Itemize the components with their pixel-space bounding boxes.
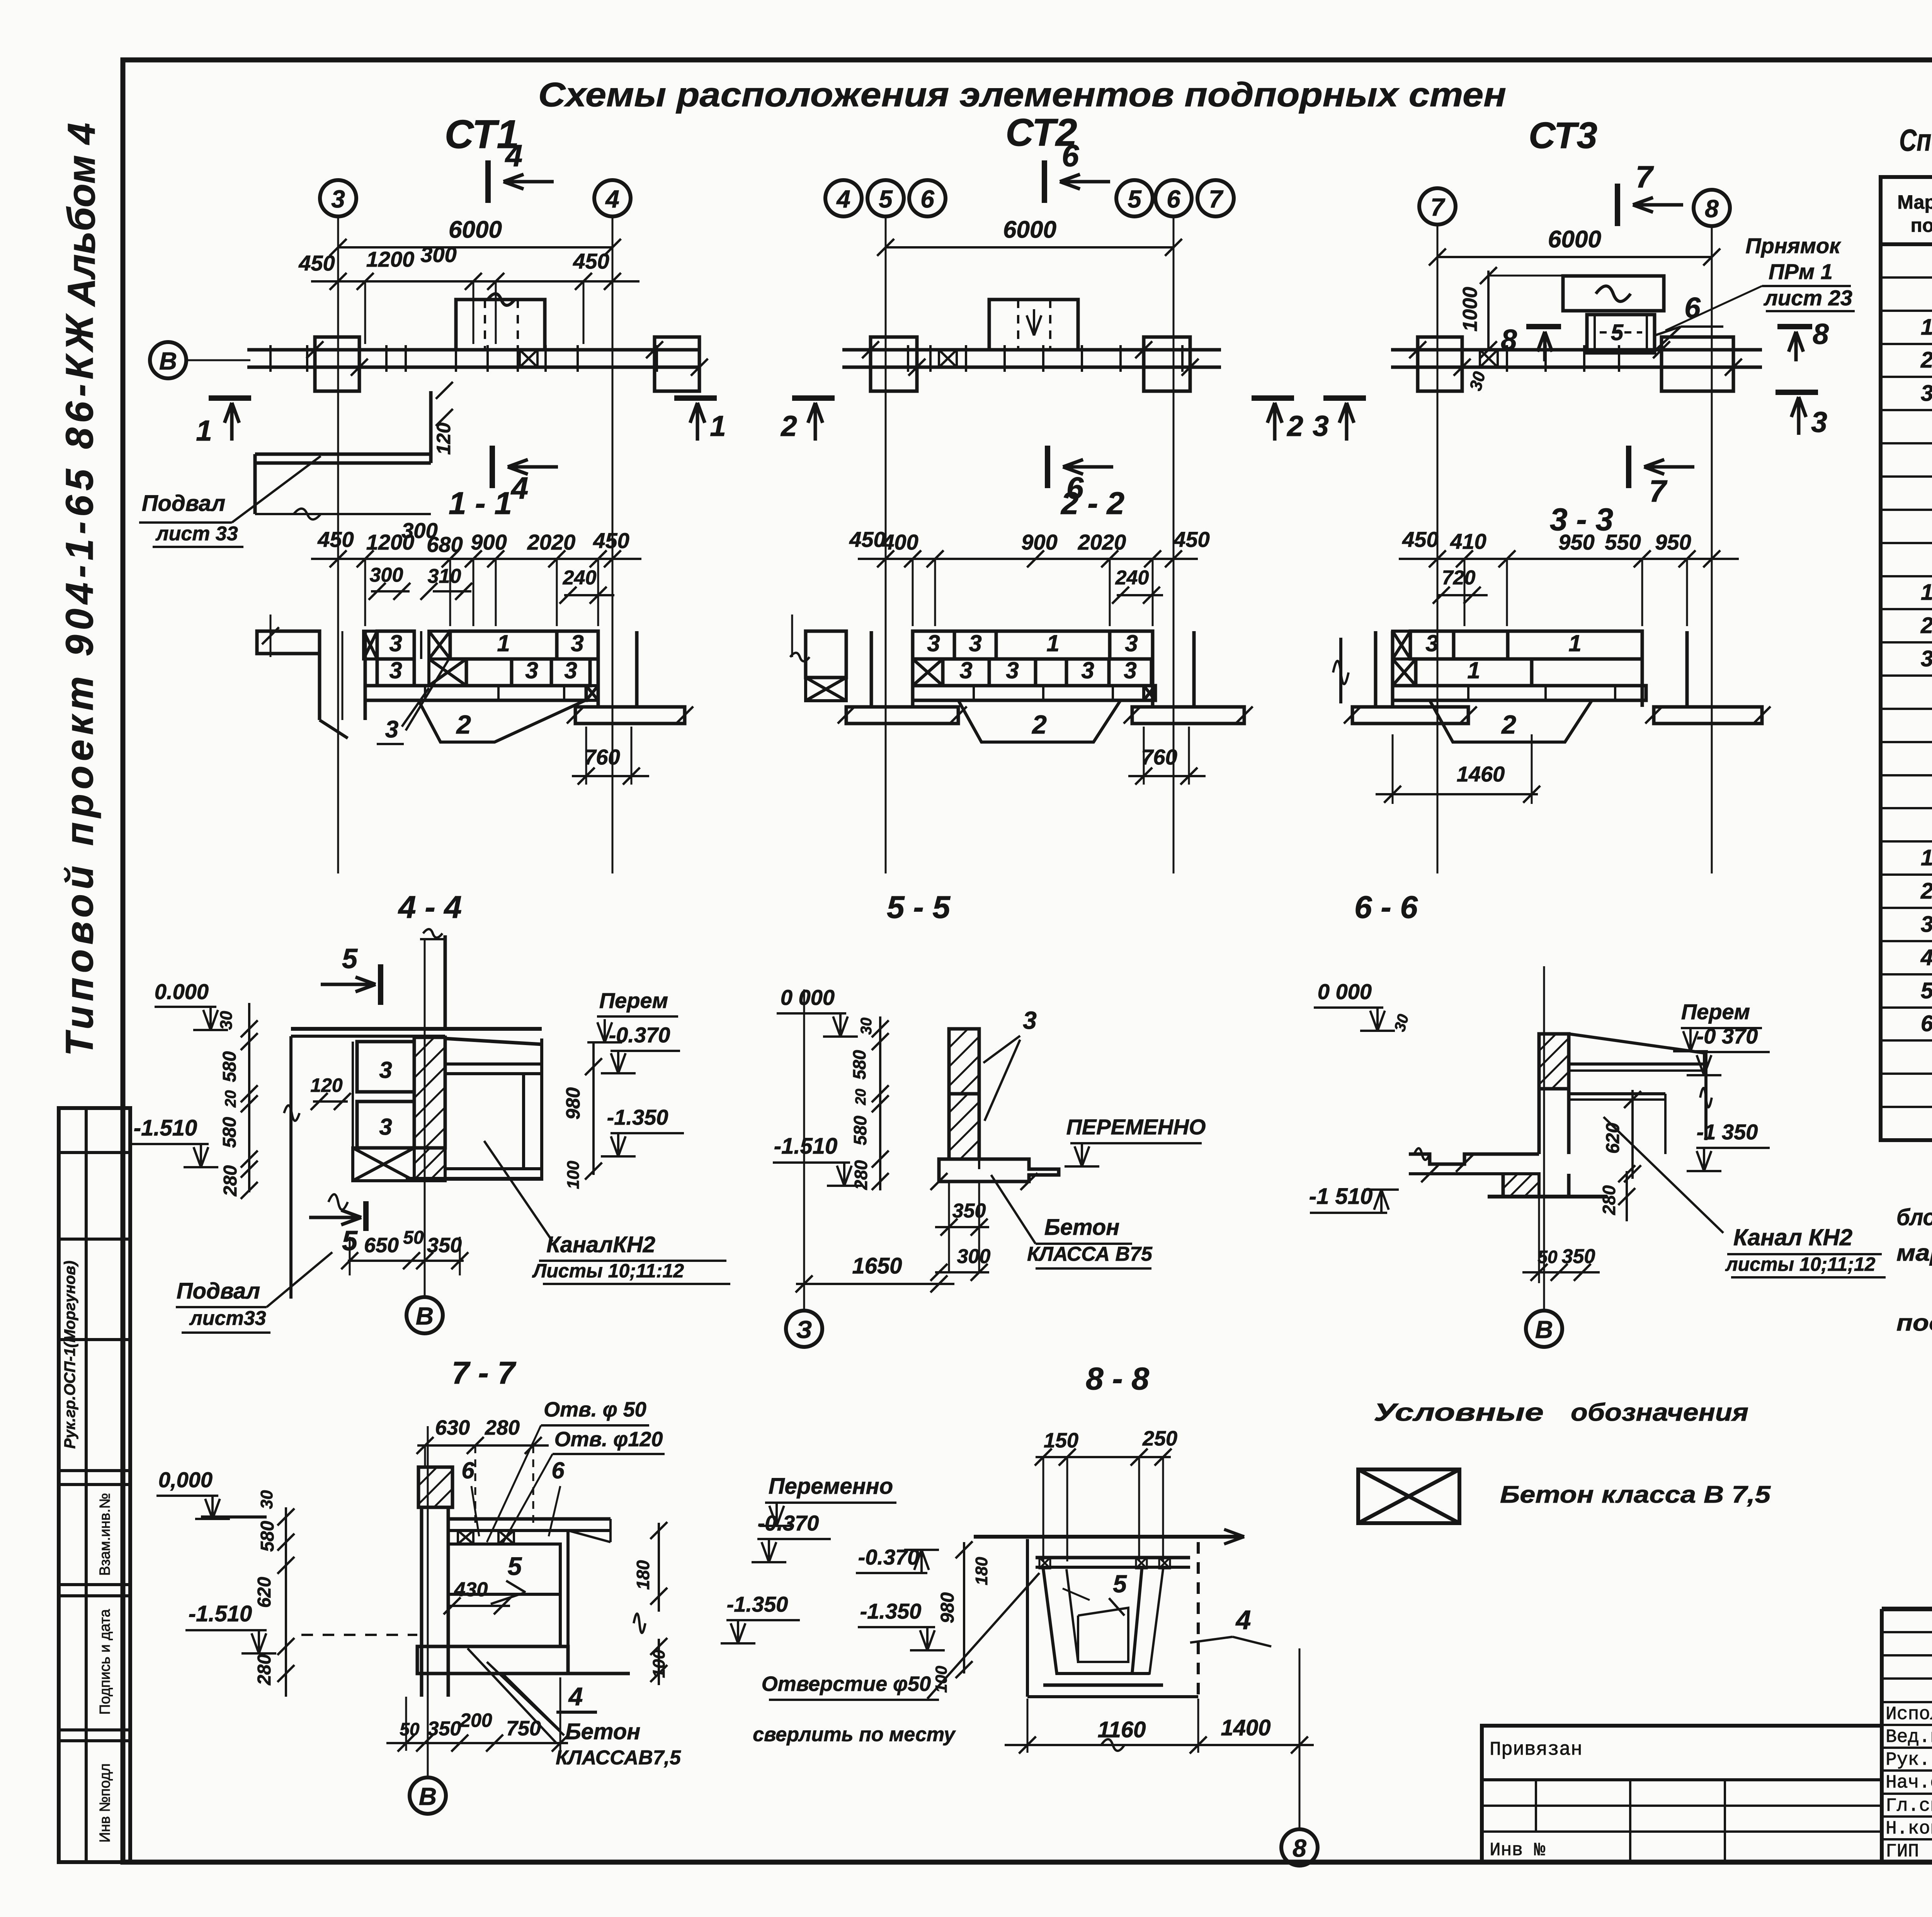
svg-text:Отв. φ 50: Отв. φ 50 (544, 1398, 646, 1421)
svg-text:580: 580 (257, 1521, 278, 1552)
svg-text:2: 2 (1501, 710, 1516, 739)
svg-text:450: 450 (849, 527, 885, 552)
svg-text:300: 300 (957, 1245, 991, 1268)
svg-text:лист33: лист33 (189, 1307, 266, 1330)
svg-text:Рук.гр.ОСП-1(Моргунов): Рук.гр.ОСП-1(Моргунов) (61, 1261, 78, 1449)
svg-text:50: 50 (400, 1719, 420, 1739)
svg-text:980: 980 (937, 1592, 958, 1623)
svg-text:5: 5 (1921, 978, 1932, 1003)
svg-text:1: 1 (196, 414, 212, 447)
svg-text:Испол.: Испол. (1886, 1704, 1932, 1725)
svg-text:580: 580 (219, 1117, 240, 1148)
svg-text:8 - 8: 8 - 8 (1086, 1361, 1149, 1396)
svg-text:Инв №: Инв № (1490, 1840, 1545, 1861)
svg-text:6: 6 (551, 1457, 565, 1483)
svg-text:2: 2 (1031, 710, 1047, 739)
svg-text:760: 760 (584, 745, 620, 769)
svg-text:3: 3 (389, 630, 402, 656)
svg-text:350: 350 (427, 1234, 462, 1257)
svg-text:950: 950 (1558, 530, 1594, 554)
svg-text:В: В (416, 1302, 434, 1330)
svg-text:5: 5 (508, 1552, 522, 1580)
svg-text:180: 180 (633, 1560, 653, 1590)
svg-text:100: 100 (564, 1161, 583, 1189)
svg-text:4 - 4: 4 - 4 (398, 890, 462, 925)
svg-text:0,000: 0,000 (158, 1468, 213, 1492)
svg-text:2 - 2: 2 - 2 (1060, 486, 1124, 521)
svg-text:3: 3 (1081, 657, 1094, 683)
svg-text:950: 950 (1655, 530, 1691, 554)
svg-text:240: 240 (563, 567, 597, 589)
svg-text:4: 4 (605, 185, 619, 213)
svg-text:КаналКН2: КаналКН2 (546, 1232, 655, 1257)
svg-text:3: 3 (1811, 406, 1827, 438)
svg-text:Бетон класса В 7,5: Бетон класса В 7,5 (1500, 1481, 1771, 1508)
svg-text:8: 8 (1293, 1834, 1306, 1862)
svg-text:6000: 6000 (1548, 226, 1601, 253)
svg-text:3: 3 (1125, 630, 1138, 656)
svg-text:0 000: 0 000 (781, 985, 835, 1010)
svg-text:Перем: Перем (1681, 999, 1750, 1024)
svg-text:обозначения: обозначения (1571, 1398, 1748, 1426)
svg-text:630: 630 (435, 1416, 470, 1439)
svg-text:Переменно: Переменно (769, 1474, 893, 1499)
svg-text:6: 6 (1684, 291, 1701, 324)
svg-text:Н.контр: Н.контр (1886, 1818, 1932, 1839)
svg-text:980: 980 (562, 1087, 584, 1120)
svg-text:250: 250 (1142, 1427, 1177, 1450)
svg-text:3: 3 (1921, 646, 1932, 671)
svg-text:Типовой проект 904-1-65 86-К: Типовой проект 904-1-65 86-КЖ (58, 310, 101, 1056)
svg-text:900: 900 (1021, 530, 1057, 554)
svg-text:410: 410 (1450, 529, 1486, 553)
svg-text:Марка: Марка (1897, 191, 1932, 213)
svg-text:1160: 1160 (1098, 1717, 1146, 1742)
svg-text:3: 3 (1921, 381, 1932, 406)
svg-text:Бетон: Бетон (1044, 1215, 1120, 1240)
svg-text:30: 30 (217, 1011, 236, 1030)
svg-text:Нач.отд: Нач.отд (1886, 1772, 1932, 1793)
svg-text:1: 1 (497, 630, 510, 656)
svg-text:подсыпка толщиной 100 мм.: подсыпка толщиной 100 мм. (1896, 1310, 1932, 1336)
svg-text:-1.510: -1.510 (189, 1601, 252, 1626)
svg-text:310: 310 (428, 565, 461, 587)
svg-text:1 - 1: 1 - 1 (449, 486, 512, 521)
svg-text:КЛАССАВ7,5: КЛАССАВ7,5 (556, 1747, 681, 1769)
svg-text:В: В (1535, 1316, 1553, 1343)
svg-text:3: 3 (564, 657, 577, 683)
svg-text:450: 450 (298, 251, 335, 275)
svg-text:1000: 1000 (1459, 287, 1481, 332)
svg-text:З: З (796, 1316, 812, 1343)
svg-text:0 000: 0 000 (1318, 979, 1372, 1004)
svg-text:Условные: Условные (1374, 1398, 1544, 1426)
svg-text:6: 6 (1921, 1011, 1932, 1036)
svg-text:Подпись и дата: Подпись и дата (97, 1609, 113, 1714)
svg-text:0.000: 0.000 (155, 979, 209, 1004)
svg-text:6 - 6: 6 - 6 (1354, 890, 1418, 925)
svg-text:4: 4 (568, 1682, 583, 1711)
svg-text:2: 2 (780, 410, 797, 442)
svg-text:680: 680 (427, 532, 463, 557)
svg-text:-1.510: -1.510 (134, 1115, 197, 1141)
svg-text:6: 6 (920, 185, 934, 213)
svg-text:5: 5 (342, 943, 358, 974)
svg-text:поз: поз (1911, 215, 1932, 236)
svg-text:1460: 1460 (1457, 762, 1505, 786)
svg-text:лист 23: лист 23 (1763, 286, 1852, 310)
svg-text:760: 760 (1141, 745, 1177, 769)
svg-text:Рук.гр.: Рук.гр. (1886, 1750, 1932, 1771)
svg-text:4: 4 (836, 185, 850, 213)
svg-text:Гл.спец: Гл.спец (1886, 1796, 1932, 1817)
svg-text:3: 3 (385, 716, 398, 743)
svg-text:-0.370: -0.370 (858, 1545, 920, 1569)
svg-text:50: 50 (403, 1227, 424, 1248)
svg-text:1: 1 (710, 410, 726, 442)
svg-text:3: 3 (1006, 657, 1019, 683)
svg-text:3: 3 (1313, 410, 1329, 442)
svg-text:-0 370: -0 370 (1697, 1024, 1758, 1048)
svg-text:Вед.инж: Вед.инж (1886, 1727, 1932, 1748)
svg-text:1: 1 (1568, 630, 1581, 656)
svg-text:900: 900 (471, 530, 507, 554)
svg-text:Бетон: Бетон (565, 1719, 641, 1744)
svg-text:750: 750 (506, 1717, 541, 1740)
svg-text:3: 3 (525, 657, 538, 683)
svg-text:20: 20 (853, 1089, 869, 1105)
svg-text:-1.350: -1.350 (607, 1105, 668, 1129)
svg-text:Листы 10;11:12: Листы 10;11:12 (532, 1260, 684, 1282)
svg-text:650: 650 (364, 1234, 399, 1257)
svg-text:4: 4 (510, 471, 529, 505)
svg-text:В: В (159, 347, 177, 375)
svg-text:сверлить по месту: сверлить по месту (753, 1723, 956, 1746)
svg-text:7: 7 (1209, 185, 1224, 213)
svg-text:1: 1 (1921, 315, 1932, 340)
svg-text:7: 7 (1430, 193, 1446, 221)
svg-text:-1.510: -1.510 (774, 1134, 837, 1159)
svg-text:450: 450 (573, 249, 609, 273)
svg-text:-0.370: -0.370 (758, 1511, 819, 1535)
svg-text:8: 8 (1501, 323, 1517, 356)
svg-text:3: 3 (331, 185, 345, 213)
svg-text:300: 300 (420, 242, 456, 267)
svg-text:1650: 1650 (852, 1253, 902, 1279)
svg-text:7: 7 (1649, 474, 1668, 508)
svg-text:5 - 5: 5 - 5 (887, 890, 951, 925)
svg-text:450: 450 (317, 527, 354, 552)
svg-text:Схемы расположения элементов: Схемы расположения элементов подпорных с… (538, 75, 1506, 114)
svg-text:240: 240 (1115, 567, 1149, 589)
svg-text:400: 400 (882, 530, 918, 554)
svg-text:-1 350: -1 350 (1697, 1120, 1758, 1144)
svg-text:3: 3 (379, 1114, 392, 1140)
svg-text:3: 3 (1425, 630, 1438, 656)
svg-text:5: 5 (1611, 320, 1624, 345)
svg-text:2: 2 (1920, 347, 1932, 373)
svg-text:120: 120 (433, 422, 454, 455)
svg-text:Отверстие φ50: Отверстие φ50 (762, 1672, 931, 1696)
svg-text:280: 280 (254, 1654, 275, 1685)
svg-text:ПЕРЕМЕННО: ПЕРЕМЕННО (1066, 1115, 1206, 1139)
svg-text:450: 450 (593, 528, 629, 553)
svg-text:КЛАССА В75: КЛАССА В75 (1027, 1243, 1153, 1265)
svg-text:ПРм 1: ПРм 1 (1769, 259, 1833, 284)
svg-text:4: 4 (1235, 1605, 1251, 1635)
svg-text:2020: 2020 (527, 530, 576, 554)
svg-text:350: 350 (428, 1718, 461, 1740)
svg-text:3: 3 (969, 630, 981, 656)
svg-text:280: 280 (485, 1416, 520, 1439)
svg-text:листы 10;11;12: листы 10;11;12 (1725, 1253, 1876, 1275)
svg-text:350: 350 (952, 1200, 986, 1222)
svg-text:6: 6 (1167, 185, 1180, 213)
svg-text:2: 2 (456, 710, 471, 739)
svg-text:-0.370: -0.370 (609, 1023, 670, 1047)
svg-text:3: 3 (571, 630, 583, 656)
svg-text:30: 30 (257, 1490, 276, 1509)
svg-text:300: 300 (370, 564, 403, 586)
svg-text:марки 100.: марки 100. (1896, 1240, 1932, 1266)
svg-text:180: 180 (972, 1557, 991, 1585)
svg-text:ГИП: ГИП (1886, 1841, 1919, 1862)
svg-text:-1 510: -1 510 (1309, 1184, 1372, 1209)
svg-text:1200: 1200 (366, 247, 415, 271)
svg-text:450: 450 (1402, 527, 1438, 552)
svg-text:3: 3 (959, 657, 972, 683)
svg-text:2: 2 (1920, 878, 1932, 904)
svg-text:620: 620 (254, 1577, 275, 1608)
svg-text:1400: 1400 (1221, 1715, 1270, 1740)
svg-text:Подвал: Подвал (142, 491, 225, 516)
svg-text:Канал КН2: Канал КН2 (1733, 1224, 1852, 1250)
svg-text:Спецификация к схеме расположе: Спецификация к схеме расположения элемен… (1899, 123, 1932, 157)
svg-text:50: 50 (1537, 1247, 1558, 1267)
svg-text:6000: 6000 (449, 216, 502, 243)
svg-text:6000: 6000 (1003, 216, 1056, 243)
svg-text:Взам.инв.№: Взам.инв.№ (97, 1493, 113, 1576)
svg-text:СТ3: СТ3 (1529, 115, 1597, 156)
svg-text:350: 350 (1562, 1245, 1595, 1268)
svg-text:6: 6 (1062, 138, 1079, 173)
svg-text:8: 8 (1705, 195, 1719, 223)
svg-text:3: 3 (1023, 1006, 1037, 1034)
svg-text:4: 4 (1920, 945, 1932, 970)
svg-text:580: 580 (849, 1050, 869, 1079)
svg-text:3: 3 (1124, 657, 1136, 683)
svg-text:580: 580 (850, 1115, 870, 1145)
svg-text:450: 450 (1173, 527, 1209, 552)
svg-text:3: 3 (379, 1057, 392, 1083)
svg-text:30: 30 (858, 1018, 875, 1035)
svg-text:блоков, укладываемых на цеме: блоков, укладываемых на цементно - песча… (1896, 1204, 1932, 1230)
svg-text:лист 33: лист 33 (155, 523, 238, 545)
svg-text:3: 3 (1921, 912, 1932, 937)
svg-text:1: 1 (1921, 845, 1932, 870)
svg-text:280: 280 (220, 1165, 241, 1197)
svg-text:200: 200 (459, 1709, 492, 1731)
svg-text:2: 2 (1920, 613, 1932, 638)
svg-text:Перем: Перем (599, 988, 668, 1013)
svg-text:8: 8 (1813, 318, 1829, 350)
svg-text:5: 5 (1113, 1570, 1127, 1598)
svg-text:4: 4 (505, 138, 523, 173)
svg-text:-1.350: -1.350 (727, 1592, 788, 1616)
svg-text:2: 2 (1286, 410, 1303, 442)
svg-text:3: 3 (389, 657, 402, 683)
svg-text:6: 6 (461, 1457, 474, 1483)
svg-text:Подвал: Подвал (177, 1279, 260, 1304)
svg-text:1: 1 (1467, 657, 1480, 683)
svg-text:20: 20 (222, 1090, 239, 1108)
svg-text:Инв №подл: Инв №подл (97, 1763, 113, 1842)
svg-text:2020: 2020 (1078, 530, 1126, 554)
svg-text:150: 150 (1044, 1429, 1078, 1452)
svg-text:Альбом 4: Альбом 4 (60, 123, 103, 307)
svg-text:280: 280 (1599, 1185, 1619, 1215)
svg-text:720: 720 (1442, 567, 1476, 589)
svg-text:1: 1 (1921, 580, 1932, 605)
svg-text:7 - 7: 7 - 7 (452, 1355, 516, 1391)
svg-text:5: 5 (1128, 185, 1142, 213)
svg-text:3: 3 (927, 630, 940, 656)
svg-text:1: 1 (1046, 630, 1059, 656)
svg-text:580: 580 (219, 1051, 240, 1082)
svg-text:7: 7 (1636, 160, 1654, 194)
svg-text:Прнямок: Прнямок (1745, 233, 1841, 258)
svg-text:В: В (419, 1783, 437, 1810)
svg-text:Отв. φ120: Отв. φ120 (554, 1428, 663, 1451)
svg-text:5: 5 (879, 185, 893, 213)
svg-text:-1.350: -1.350 (860, 1599, 922, 1623)
svg-text:550: 550 (1605, 530, 1641, 554)
svg-text:Привязан: Привязан (1490, 1739, 1582, 1761)
